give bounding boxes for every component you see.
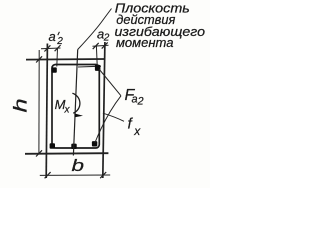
label a2 [97, 27, 110, 44]
rebar bottom-center [71, 144, 76, 149]
svg-text:2: 2 [103, 33, 110, 44]
paper background [0, 0, 210, 188]
label fx [128, 116, 142, 139]
tick at left [45, 172, 51, 178]
label Fa2 [125, 87, 144, 108]
svg-text:x: x [64, 104, 71, 115]
leader from top-right rebar to Fa2 [99, 69, 121, 96]
center line (plane of bending moment) [73, 50, 77, 156]
svg-text:момента: момента [116, 35, 174, 50]
svg-text:h: h [10, 98, 31, 112]
tick at bar axis [55, 45, 61, 51]
top edge with left extension for h dimension [26, 58, 105, 61]
rebar bottom-left [50, 143, 55, 148]
tick at top [36, 56, 42, 62]
leader from bottom-right rebar to Fa2 [95, 96, 121, 143]
label a'2 [49, 29, 64, 47]
label Mx [55, 97, 71, 115]
caption text: plane of action of bending moment [115, 0, 206, 50]
leader line from text to center line [78, 9, 112, 50]
right edge extended up to a2 dim and down to b dim [103, 42, 105, 178]
left edge extended up to a'2 dim and down to b dim [46, 44, 47, 179]
dimension a'2 (top left): dim line [41, 47, 61, 50]
svg-text:a: a [49, 29, 56, 44]
moment arrowhead [74, 113, 83, 117]
extension from a2 tick down to top-right rebar [95, 46, 98, 66]
bottom edge with left and right extensions [25, 152, 108, 155]
dimension a2 (top right): dim line [93, 45, 109, 46]
leader from right face to fx [103, 113, 124, 121]
rebar top-right [95, 65, 101, 71]
svg-text:2: 2 [137, 96, 144, 108]
extension from a'2 tick down to top-left rebar [56, 48, 59, 66]
stirrup (rounded inner rectangle) [52, 65, 99, 149]
dimension b (bottom): dim line [40, 174, 110, 176]
tick at left face [44, 45, 50, 51]
svg-text:b: b [72, 157, 85, 175]
tick at bottom [36, 150, 42, 156]
tick at right [100, 172, 106, 178]
svg-text:2: 2 [56, 36, 63, 47]
outer concrete section rectangle [25, 42, 108, 178]
rebar bottom-right [92, 141, 97, 146]
dimension h (left side): dim line [38, 50, 40, 154]
stirrup top doubled stroke (hand-drawn look) [78, 65, 101, 68]
tick at right face [102, 42, 108, 48]
moment Mx arc symbol [72, 93, 80, 113]
rebar top-left [51, 67, 56, 72]
prime mark of a'2 [58, 32, 60, 35]
tick at bar axis [93, 43, 99, 49]
svg-text:x: x [133, 124, 141, 138]
